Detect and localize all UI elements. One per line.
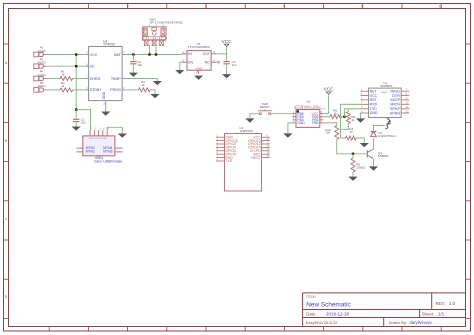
connector USB1 micro USBFemale body	[83, 136, 115, 156]
connector P4 GLED	[34, 76, 47, 81]
svg-text:4: 4	[283, 5, 285, 9]
ground at USB	[118, 134, 127, 138]
U5 pin 4 NC	[211, 61, 216, 63]
svg-text:1/1: 1/1	[438, 312, 445, 317]
connector P5 RLED	[34, 88, 47, 93]
ground at U1	[356, 118, 365, 122]
U1 right pin 10 MICN	[401, 103, 409, 105]
wire SW2 left to ground	[250, 114, 259, 119]
wire D1 to antenna	[374, 126, 385, 132]
USB1 top pin 5	[106, 130, 108, 136]
wire DW1 pin 1 to BAT net	[149, 45, 151, 55]
connector P3 RLED	[34, 64, 47, 69]
svg-text:MTN1: MTN1	[86, 150, 95, 154]
title block rev cell divider	[431, 293, 433, 310]
USB1 MTN labels	[86, 146, 113, 154]
resistor R6	[330, 115, 342, 119]
U7 pin 5 PB0	[320, 122, 324, 124]
svg-text:3: 3	[205, 5, 207, 9]
svg-text:ESP8266: ESP8266	[240, 129, 253, 133]
diode D1 1N4007PRLG	[371, 132, 377, 137]
wire Q1 emitter to ground	[373, 159, 375, 167]
U4 pin 8 CE	[86, 65, 89, 67]
connector P1 GLED	[34, 52, 47, 57]
svg-text:NC: NC	[205, 61, 210, 65]
U7 pin 4 GND	[292, 122, 296, 124]
svg-text:GND: GND	[370, 111, 378, 115]
svg-text:1: 1	[48, 5, 50, 9]
svg-text:Sheet:: Sheet:	[422, 312, 434, 317]
DW1 pin numbers	[149, 25, 165, 27]
wire branch to USB VCC	[76, 110, 90, 131]
svg-text:GND: GND	[102, 91, 106, 99]
USB1 top pin 4	[102, 130, 104, 136]
capacitor C2	[130, 61, 136, 63]
border column numbers	[48, 5, 441, 9]
junction dot B	[75, 65, 77, 67]
svg-text:REST: REST	[251, 156, 261, 160]
svg-text:6: 6	[439, 5, 441, 9]
U1 right pin 7 RING	[401, 90, 409, 92]
svg-text:CE: CE	[90, 65, 96, 69]
svg-text:SP-2.5-MID-REINFORCE:: SP-2.5-MID-REINFORCE:	[150, 20, 184, 24]
USB1 right mount pins	[115, 147, 123, 149]
svg-text:TEMP: TEMP	[111, 77, 122, 81]
wire USB GND jog to ground	[107, 127, 122, 133]
svg-text:micro USBFemale: micro USBFemale	[94, 159, 122, 163]
wire PROG to R3	[126, 89, 139, 91]
U1 right pin 11 SPKP	[401, 108, 409, 110]
svg-text:Date:: Date:	[306, 312, 316, 317]
antenna curl	[385, 119, 390, 129]
U7 pin 3 PB4	[292, 119, 296, 121]
junction dot F	[352, 153, 354, 155]
resistor R5	[352, 154, 354, 158]
ground at U7	[283, 133, 292, 137]
wire U1 RXD	[341, 103, 361, 105]
svg-text:EasyEDA V5.8.22: EasyEDA V5.8.22	[306, 320, 339, 325]
svg-text:PROG: PROG	[110, 88, 121, 92]
U3 right pin 12 GPIO14	[262, 146, 270, 148]
U1 right pin 8 DTR	[401, 95, 409, 97]
svg-text:CHRG: CHRG	[90, 77, 101, 81]
USB1 top pin 3	[98, 130, 100, 136]
U1 left pin 3 RST	[361, 99, 369, 101]
resistor R4	[346, 136, 357, 140]
wire R5 to ground	[352, 172, 354, 177]
U7 pin 6 PB1	[320, 119, 324, 121]
wire GLED to VCC pin	[47, 54, 86, 56]
ground at SW2	[245, 118, 254, 122]
title block frame	[303, 293, 466, 327]
resistor R2	[60, 88, 73, 92]
wire vertical bus to C1	[75, 55, 77, 119]
USB1 top pin 1	[89, 130, 91, 136]
svg-text:1N4007PRLG: 1N4007PRLG	[378, 134, 397, 138]
wire RLED to CE pin	[47, 65, 86, 67]
U3 right pin 15 REST	[262, 157, 270, 159]
svg-text:GLED: GLED	[38, 73, 46, 77]
ground at Q1	[369, 166, 378, 170]
U3 left pin 4 GPIO0	[216, 146, 224, 148]
wire junction up to TXD net	[343, 109, 345, 117]
title block row line 2	[303, 317, 466, 319]
capacitor C1	[73, 118, 79, 120]
U1 left pin 1 NET	[361, 90, 369, 92]
svg-text:STDBY: STDBY	[90, 88, 103, 92]
capacitor C3	[223, 61, 229, 63]
wire R2 to STDBY	[73, 89, 86, 91]
wire R3 to ground	[150, 90, 155, 94]
svg-text:2: 2	[127, 5, 129, 9]
ground at R4	[360, 143, 369, 147]
resistor R3	[139, 88, 151, 92]
svg-text:2018-12-28: 2018-12-28	[326, 312, 350, 317]
junction dot C	[75, 108, 77, 110]
svg-text:RLED: RLED	[38, 84, 46, 88]
U1 right pin 12 SPKN	[401, 112, 409, 114]
U7 pin 2 PB3	[292, 116, 296, 118]
no-connect cross at NC	[217, 61, 219, 63]
ground below C3	[222, 74, 231, 78]
U1 left pin 4 RXD	[361, 103, 369, 105]
ground at EN	[175, 70, 184, 74]
svg-text:VCC: VCC	[90, 53, 98, 57]
svg-text:daryllvinuya: daryllvinuya	[410, 320, 433, 325]
svg-text:REV:: REV:	[436, 301, 446, 306]
U4 pin 7 CHRG	[86, 78, 89, 80]
U1 left pin 5 TXD	[361, 108, 369, 110]
svg-text:MICP: MICP	[391, 98, 401, 102]
svg-text:10u: 10u	[232, 63, 237, 67]
svg-text:OUT: OUT	[203, 52, 210, 56]
ground below C1	[72, 127, 81, 131]
wire C2 to ground	[132, 64, 134, 73]
junction dot A	[75, 53, 77, 55]
transistor Q1 SS8050	[367, 149, 373, 158]
wire Q1 collector to D1	[373, 138, 375, 150]
svg-text:TITLE:: TITLE:	[306, 295, 316, 299]
U3 left pin 5 GPIO4	[216, 150, 224, 152]
U1 left pin 6 GND	[361, 112, 369, 114]
svg-text:MTN3: MTN3	[103, 150, 112, 154]
resistor R8	[347, 109, 349, 112]
wire BAT to U5 IN	[126, 54, 182, 56]
U4 pin 2 PROG	[122, 89, 126, 91]
svg-text:New Schematic: New Schematic	[306, 302, 351, 309]
wire R4 to ground	[356, 138, 364, 143]
wire C1 to ground	[75, 122, 77, 127]
svg-text:10u: 10u	[137, 63, 142, 67]
wire R10 to base rail	[337, 140, 367, 154]
wire RXD net	[341, 104, 361, 138]
wire C3 to ground	[226, 64, 228, 74]
svg-text:10k: 10k	[325, 131, 330, 135]
svg-text:ATTINY85V-10SU: ATTINY85V-10SU	[294, 105, 321, 109]
wire U7 GND to ground	[288, 123, 293, 133]
U3 left pin 7 RXD	[216, 157, 224, 159]
title block sheet cell divider	[419, 310, 421, 318]
svg-text:SIM800L: SIM800L	[380, 84, 393, 88]
svg-text:1.0: 1.0	[449, 301, 456, 306]
wire R8 bottom	[341, 124, 349, 130]
svg-text:5: 5	[361, 5, 363, 9]
border row letters	[5, 61, 8, 299]
svg-text:SS8050: SS8050	[378, 154, 389, 158]
U3 left pin 1 GND	[216, 136, 224, 138]
wire C2 drop	[132, 55, 134, 62]
svg-text:1k: 1k	[61, 73, 65, 77]
junction dot D	[132, 53, 134, 55]
U3 left pin 6 GPIO5	[216, 153, 224, 155]
U3 right pin 9 VCC	[262, 136, 270, 138]
wire R1 to CHRG	[73, 78, 86, 80]
svg-text:SIM800: SIM800	[381, 92, 389, 94]
U5 GND pin 2	[198, 70, 200, 74]
svg-text:BAT: BAT	[114, 53, 122, 57]
wire conn4 to R2	[47, 89, 60, 91]
ground below C2	[129, 73, 138, 77]
regulator U5 TPS76933DBVR body	[187, 51, 211, 71]
U4 pin 3 GND	[105, 101, 107, 106]
U3 left pin 8 TXD	[216, 160, 224, 162]
title block row line 1	[303, 309, 466, 311]
U3 left pin 3 GPIO2	[216, 143, 224, 145]
title block drawnby cell divider	[383, 318, 385, 327]
module U1 SIM800L body	[369, 88, 402, 117]
svg-text:TPS76933DBVR: TPS76933DBVR	[188, 45, 210, 49]
svg-text:1k: 1k	[350, 130, 354, 134]
U5 pin 1 IN	[182, 53, 187, 55]
U4 pin 6 STDBY	[86, 89, 89, 91]
svg-text:RLED: RLED	[38, 61, 46, 65]
pushbutton SW2 RESET	[258, 109, 272, 115]
svg-text:RST: RST	[370, 98, 378, 102]
U1 right pin 9 MICP	[401, 99, 409, 101]
ground below U4	[105, 106, 107, 112]
wire VCC to U7	[323, 95, 328, 114]
svg-text:NET: NET	[370, 89, 378, 93]
USB1 top pin 2	[93, 130, 95, 136]
svg-text:U7: U7	[307, 100, 311, 104]
resistor R1	[60, 77, 73, 81]
wire VCC down to C3	[226, 47, 228, 61]
svg-text:MICN: MICN	[390, 103, 400, 107]
U4 pin 4 VCC	[86, 54, 89, 56]
svg-text:VCC D- D+ ID GND: VCC D- D+ ID GND	[89, 138, 107, 140]
U1 left pin 2 VCC	[361, 95, 369, 97]
svg-text:GLED: GLED	[38, 49, 46, 53]
ground at R3	[150, 94, 159, 98]
wire OUT to VCC node	[217, 53, 227, 55]
svg-text:1k: 1k	[333, 111, 337, 115]
svg-text:1k: 1k	[351, 118, 355, 122]
resistor R10	[335, 126, 339, 140]
wire TEMP to ground	[126, 79, 157, 82]
U4 pin 5 BAT	[122, 54, 126, 56]
U3 right pin 13 CH-PD	[262, 150, 270, 152]
U3 right pin 14 ADC	[262, 153, 270, 155]
wire U1 TXD	[344, 108, 360, 110]
U4 pin 1 TEMP	[122, 78, 126, 80]
wire PB0 to R10	[323, 123, 336, 126]
wire SW2 to PB5	[271, 113, 293, 115]
wire U1 GND to ground	[360, 113, 362, 118]
U7 pin 1 PB5	[292, 113, 296, 115]
ground at R5	[348, 177, 357, 181]
svg-text:10u: 10u	[81, 121, 86, 125]
svg-text:TXD: TXD	[225, 159, 232, 163]
svg-text:100kΩ: 100kΩ	[356, 165, 366, 169]
U3 right pin 11 GPIO12	[262, 143, 270, 145]
svg-text:SPKN: SPKN	[390, 111, 401, 115]
junction dot DW1a	[148, 53, 150, 55]
wire DW1 pin 2 to BAT net	[155, 45, 157, 55]
ground at TEMP	[153, 81, 162, 85]
svg-text:RXD: RXD	[370, 103, 378, 107]
svg-text:RESET: RESET	[260, 105, 270, 109]
wire PB2 to R6	[323, 116, 330, 118]
svg-text:RING: RING	[391, 90, 401, 94]
wire EN to ground	[180, 62, 182, 70]
svg-text:GND: GND	[297, 121, 305, 125]
wire R6 to junction	[342, 116, 345, 118]
ground below U5	[194, 76, 203, 80]
svg-text:1k: 1k	[141, 83, 145, 87]
U7 pin 7 PB2	[320, 116, 324, 118]
U3 left pin 2 GPIO15	[216, 140, 224, 142]
junction dot DW1b	[155, 53, 157, 55]
svg-text:EN: EN	[188, 61, 193, 65]
U5 pin 3 EN	[182, 61, 187, 63]
svg-text:Drawn By:: Drawn By:	[389, 320, 407, 325]
mcu U7 ATTINY85V-10SU body	[296, 110, 320, 128]
U7 pin 8 VCC	[320, 113, 324, 115]
svg-text:1k: 1k	[61, 84, 65, 88]
svg-text:TP4056: TP4056	[103, 43, 115, 47]
U5 pin 5 OUT	[211, 53, 216, 55]
module U3 ESP8266 body	[225, 134, 262, 192]
op-amp U4 TP4056 body	[89, 47, 123, 101]
svg-text:PB0: PB0	[312, 121, 318, 125]
buzzer DW1 SP-2.5-MID-REINFORCE	[142, 27, 166, 46]
USB1 left mount pins	[77, 147, 83, 149]
svg-text:IN: IN	[188, 52, 192, 56]
junction dot E	[343, 116, 345, 118]
svg-text:GND: GND	[196, 66, 204, 70]
wire TXD net	[344, 108, 360, 110]
U3 right pin 10 GPIO13	[262, 140, 270, 142]
wire conn3 to R1	[47, 78, 60, 80]
